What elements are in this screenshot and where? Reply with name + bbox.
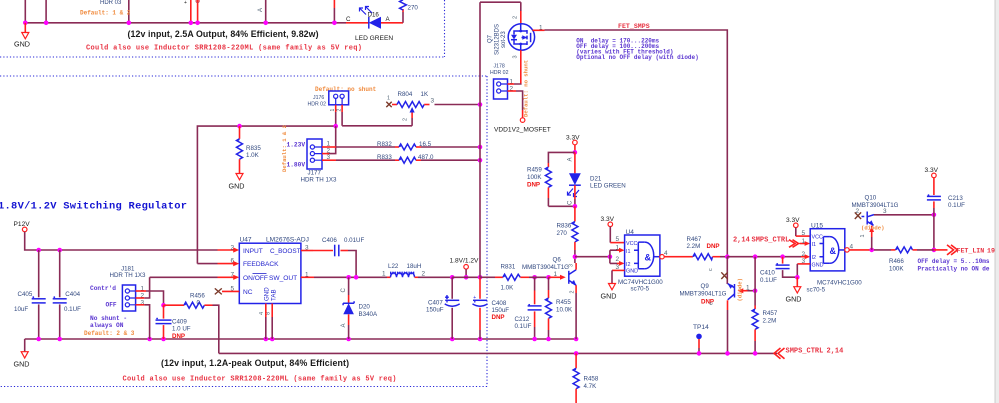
svg-text:I1: I1 bbox=[626, 249, 631, 255]
svg-text:C407: C407 bbox=[428, 299, 443, 306]
svg-text:Q9: Q9 bbox=[701, 283, 710, 290]
svg-text:P12V: P12V bbox=[14, 221, 31, 228]
svg-text:3.3V: 3.3V bbox=[786, 217, 800, 224]
svg-text:1: 1 bbox=[539, 25, 543, 32]
caption section 1 red bbox=[86, 45, 362, 53]
junction U4 input fork bbox=[608, 254, 613, 259]
svg-text:1: 1 bbox=[616, 245, 620, 252]
note Default: no shunt (rotated) bbox=[523, 60, 530, 117]
svg-text:2: 2 bbox=[802, 251, 806, 258]
svg-text:J176: J176 bbox=[313, 95, 324, 101]
svg-text:U15: U15 bbox=[811, 223, 823, 230]
note Contr'd / OFF / No shunt / Default bbox=[84, 285, 135, 337]
resistor R459 100K DNP (parallel loop) bbox=[527, 152, 575, 206]
capacitor C406 (boost) bbox=[301, 237, 365, 277]
svg-text:R466: R466 bbox=[889, 258, 904, 265]
capacitor C408 150uF DNP bbox=[473, 277, 510, 339]
svg-text:18uH: 18uH bbox=[407, 263, 422, 270]
svg-text:(12v input, 2.5A Output, 84% E: (12v input, 2.5A Output, 84% Efficient, … bbox=[128, 29, 319, 39]
ground (top left) bbox=[14, 23, 30, 49]
wire R467 node to U15 I2 bbox=[727, 254, 810, 259]
svg-text:(diode): (diode) bbox=[737, 278, 744, 302]
svg-text:1: 1 bbox=[382, 270, 386, 277]
resistor R466 100K bbox=[889, 247, 934, 273]
junction R804 to output vertical bbox=[478, 102, 483, 107]
svg-text:Q10: Q10 bbox=[865, 195, 877, 202]
capacitor C212 0.1UF bbox=[515, 275, 542, 341]
svg-text:16.5: 16.5 bbox=[419, 141, 432, 148]
svg-text:1: 1 bbox=[860, 235, 866, 238]
svg-text:INPUT: INPUT bbox=[243, 248, 263, 255]
wire stub x129 bbox=[128, 0, 130, 23]
capacitor C213 0.1UF bbox=[927, 194, 965, 250]
svg-text:C406: C406 bbox=[322, 237, 337, 244]
svg-text:2: 2 bbox=[231, 244, 235, 251]
svg-text:TAB: TAB bbox=[270, 289, 277, 301]
wire P12V to INPUT bbox=[25, 232, 240, 253]
svg-text:FEEDBACK: FEEDBACK bbox=[243, 261, 279, 268]
net label FET_SMPS bbox=[618, 23, 650, 30]
junction Q9 base to R457 bbox=[753, 288, 758, 293]
gate U15 MC74VHC1G00 bbox=[802, 223, 863, 294]
J177 pin2 wire up to J176 junction bbox=[322, 126, 336, 154]
svg-text:U4: U4 bbox=[626, 229, 635, 236]
wire FET_LIN row bbox=[849, 249, 891, 251]
svg-text:sc70-5: sc70-5 bbox=[631, 286, 650, 293]
gate U4 MC74VHC1G00 bbox=[616, 229, 669, 293]
svg-text:HDR 02: HDR 02 bbox=[308, 102, 327, 108]
svg-text:C405: C405 bbox=[18, 291, 33, 298]
svg-text:19: 19 bbox=[987, 248, 995, 255]
wire top rail bbox=[25, 22, 346, 24]
svg-text:C_BOOST: C_BOOST bbox=[270, 248, 301, 255]
svg-text:0.1UF: 0.1UF bbox=[760, 277, 777, 284]
svg-text:VDD1V2_MOSFET: VDD1V2_MOSFET bbox=[494, 127, 551, 134]
svg-text:1.0K: 1.0K bbox=[246, 152, 260, 159]
svg-text:3.3V: 3.3V bbox=[601, 216, 615, 223]
section border box 2 (1.8V/1.2V regulator) bbox=[0, 76, 487, 387]
diode lead (cut) x334 bbox=[333, 0, 335, 23]
svg-text:MMBT3904LT1G: MMBT3904LT1G bbox=[522, 264, 569, 271]
note 1.23V / 1.80V bbox=[281, 124, 305, 172]
wire Q7 drain link bbox=[480, 1, 521, 3]
svg-text:GND: GND bbox=[263, 287, 270, 301]
svg-text:FET_LIN: FET_LIN bbox=[957, 248, 985, 255]
svg-text:0: 0 bbox=[197, 300, 201, 307]
node P12V bbox=[14, 221, 31, 232]
junction output node x480 bbox=[478, 275, 483, 280]
svg-text:SMPS_CTRL: SMPS_CTRL bbox=[786, 348, 824, 356]
capacitor C410 0.1UF bbox=[760, 257, 797, 284]
svg-text:150uF: 150uF bbox=[426, 307, 444, 314]
resistor R467 2.2M DNP bbox=[679, 236, 727, 260]
svg-text:270: 270 bbox=[557, 230, 568, 237]
svg-text:Practically no ON de: Practically no ON de bbox=[918, 266, 990, 273]
svg-text:1K: 1K bbox=[421, 91, 429, 98]
svg-text:&: & bbox=[645, 253, 652, 263]
svg-text:100K: 100K bbox=[527, 174, 542, 181]
svg-text:LED GREEN: LED GREEN bbox=[590, 183, 626, 190]
ground (section 2 left) bbox=[14, 339, 30, 369]
svg-text:D21: D21 bbox=[590, 176, 602, 183]
resistor R831 1.0K bbox=[480, 263, 549, 291]
svg-text:HDR TH 1X3: HDR TH 1X3 bbox=[301, 177, 338, 184]
J177 pin3 wire / resistor R833 487.0 bbox=[322, 154, 482, 163]
svg-text:4: 4 bbox=[259, 312, 265, 315]
svg-text:L22: L22 bbox=[388, 263, 399, 270]
svg-text:Default: no shunt: Default: no shunt bbox=[523, 60, 530, 117]
svg-text:GND: GND bbox=[786, 295, 802, 304]
svg-text:1: 1 bbox=[746, 285, 750, 292]
svg-text:C404: C404 bbox=[65, 291, 80, 298]
svg-text:4.7K: 4.7K bbox=[584, 383, 598, 390]
svg-text:C409: C409 bbox=[172, 319, 187, 326]
svg-text:2: 2 bbox=[570, 291, 576, 294]
U47 NC pin5 stub with no-connect X bbox=[215, 288, 240, 294]
svg-text:Could also use Inductor SRR120: Could also use Inductor SRR1208-220ML (s… bbox=[86, 45, 362, 53]
svg-text:VCC: VCC bbox=[812, 235, 823, 241]
svg-text:DNP: DNP bbox=[172, 333, 185, 340]
junction 3.3V split bbox=[573, 150, 578, 155]
svg-text:+: + bbox=[184, 0, 187, 6]
wire FET_SMPS bbox=[545, 30, 728, 257]
header J181 HDR TH 1X3 bbox=[110, 266, 147, 311]
svg-text:LED GREEN: LED GREEN bbox=[355, 35, 393, 42]
inductor lead (cut) x266 with pin A bbox=[258, 0, 266, 23]
transistor Q10 MMBT3904LT1G (diode connected) bbox=[852, 195, 934, 250]
potentiometer R804 1K bbox=[386, 91, 480, 126]
svg-text:B340A: B340A bbox=[359, 311, 378, 318]
junction Q10 emitter bbox=[869, 248, 874, 253]
header J178 HDR 02 bbox=[490, 64, 514, 100]
svg-text:R455: R455 bbox=[556, 299, 571, 306]
svg-text:sot-23: sot-23 bbox=[501, 31, 507, 48]
svg-text:DNP: DNP bbox=[527, 181, 540, 188]
svg-text:D16: D16 bbox=[368, 12, 380, 19]
junction R459 bottom bbox=[573, 204, 578, 209]
section border box 1 (5V regulator, bottom-right corner) bbox=[0, 0, 445, 57]
svg-text:R457: R457 bbox=[763, 310, 778, 317]
svg-text:U47: U47 bbox=[240, 236, 252, 243]
transistor Q7 Si2312BDS (MOSFET) bbox=[488, 2, 545, 83]
capacitor C404 bbox=[53, 250, 81, 339]
svg-text:HDR TH 1X3: HDR TH 1X3 bbox=[110, 272, 147, 279]
svg-text:SW_OUT: SW_OUT bbox=[269, 275, 297, 282]
svg-text:TP14: TP14 bbox=[693, 324, 709, 331]
svg-text:MMBT3904LT1G: MMBT3904LT1G bbox=[680, 291, 727, 298]
node 3.3V (U15) bbox=[786, 217, 810, 236]
net label SMPS_CTRL (top) with off-page chevron bbox=[733, 236, 810, 247]
node VDD1V2_MOSFET bbox=[494, 118, 551, 134]
resistor R457 2.2M bbox=[752, 257, 778, 354]
U47 GND/TAB pins to rail bbox=[266, 304, 272, 340]
svg-text:3.3V: 3.3V bbox=[925, 167, 939, 174]
junction Q6 base node bbox=[546, 275, 551, 280]
transistor Q6 MMBT3904LT1G bbox=[522, 256, 576, 339]
svg-text:1.8V/1.2V: 1.8V/1.2V bbox=[450, 258, 480, 265]
header J177 HDR TH 1X3 bbox=[301, 139, 338, 184]
J181 pin2 wire up to ON/OFF bbox=[136, 277, 150, 298]
capacitor C405 bbox=[14, 250, 46, 339]
svg-text:C212: C212 bbox=[515, 316, 530, 323]
svg-text:HDR 03: HDR 03 bbox=[100, 0, 122, 6]
svg-text:I1: I1 bbox=[812, 242, 817, 248]
svg-text:Could also use Inductor SRR120: Could also use Inductor SRR1208-220ML (s… bbox=[123, 376, 397, 384]
svg-text:Q6: Q6 bbox=[553, 256, 562, 263]
svg-text:GND: GND bbox=[626, 269, 638, 275]
svg-text:VCC: VCC bbox=[626, 241, 637, 247]
resistor R456 0 ohm bbox=[164, 293, 219, 354]
junction R457 top bbox=[753, 254, 758, 259]
resistor R455 10.0K bbox=[546, 277, 574, 341]
wire SW_OUT row bbox=[301, 276, 387, 278]
caption section 2 red bbox=[123, 376, 397, 384]
capacitor C407 150uF bbox=[426, 275, 460, 339]
svg-text:R835: R835 bbox=[246, 145, 261, 152]
caption section 2 black bbox=[161, 358, 349, 368]
wire SMPS_CTRL rail (bottom) bbox=[219, 352, 777, 354]
svg-text:GND: GND bbox=[14, 40, 30, 49]
svg-text:I2: I2 bbox=[812, 255, 817, 261]
J181 pin3 wire down to GND rail bbox=[136, 305, 150, 339]
svg-text:R458: R458 bbox=[584, 375, 599, 382]
svg-text:R833: R833 bbox=[377, 154, 392, 161]
wire to FET_LIN off-page bbox=[934, 249, 948, 251]
svg-text:MC74VHC1G00: MC74VHC1G00 bbox=[817, 279, 862, 286]
svg-text:1.0K: 1.0K bbox=[501, 284, 515, 291]
svg-text:R836: R836 bbox=[557, 222, 572, 229]
svg-text:sc70-5: sc70-5 bbox=[807, 287, 826, 294]
node 3.3V (D21) bbox=[566, 134, 580, 152]
svg-text:J177: J177 bbox=[308, 170, 322, 177]
svg-text:2: 2 bbox=[513, 16, 519, 19]
svg-text:+: + bbox=[446, 295, 449, 301]
svg-text:+: + bbox=[473, 295, 476, 301]
resistor R835 1.0K bbox=[237, 126, 262, 173]
resistor R458 4.7K bbox=[573, 353, 599, 403]
wire ON/OFF row bbox=[150, 275, 240, 280]
header J176 HDR 02 bbox=[308, 91, 349, 112]
wire output net long vertical x480 bbox=[479, 2, 481, 277]
J176 pin2 wire to R804 wiper bbox=[342, 105, 412, 126]
svg-text:D20: D20 bbox=[359, 304, 371, 311]
junction C410 top bbox=[780, 254, 785, 259]
svg-text:e: e bbox=[709, 302, 715, 305]
J176 pin1 wire down bbox=[333, 105, 338, 129]
svg-text:OFF: OFF bbox=[106, 302, 117, 309]
svg-text:3: 3 bbox=[568, 264, 574, 267]
J177 pin1 wire / resistor R832 16.5 bbox=[322, 141, 482, 150]
svg-text:A: A bbox=[341, 323, 347, 327]
J178 pin2 wire to VDD1V2_MOSFET bbox=[508, 91, 523, 118]
svg-text:Default: 2 & 3: Default: 2 & 3 bbox=[84, 330, 135, 337]
svg-text:10.0K: 10.0K bbox=[556, 306, 573, 313]
svg-text:Optional no OFF delay (with di: Optional no OFF delay (with diode) bbox=[576, 54, 698, 61]
svg-text:3: 3 bbox=[431, 98, 435, 105]
note Default: no shunt bbox=[315, 86, 377, 93]
svg-text:2: 2 bbox=[422, 270, 426, 277]
svg-text:100K: 100K bbox=[889, 266, 904, 273]
svg-text:HDR 02: HDR 02 bbox=[490, 70, 509, 76]
transistor Q9 MMBT3904LT1G DNP (mirrored) bbox=[680, 257, 756, 354]
svg-text:GND: GND bbox=[601, 292, 617, 301]
junction FET_SMPS / Q9 collector bbox=[725, 254, 730, 259]
LED D21 GREEN bbox=[567, 152, 625, 206]
junction R456/C409 node bbox=[161, 303, 166, 308]
svg-text:1.8V/1.2V Switching Regulator: 1.8V/1.2V Switching Regulator bbox=[0, 201, 187, 213]
svg-text:C213: C213 bbox=[948, 195, 963, 202]
wire feedback node row y126 bbox=[197, 126, 335, 264]
svg-text:J178: J178 bbox=[494, 64, 505, 70]
svg-text:A: A bbox=[567, 157, 573, 161]
off-page connector FET_LIN bbox=[947, 245, 995, 255]
caption section 1 black bbox=[128, 29, 319, 39]
svg-text:1: 1 bbox=[387, 96, 390, 102]
svg-text:C: C bbox=[567, 200, 573, 205]
junction dots on top rail bbox=[23, 21, 337, 26]
svg-text:0.1UF: 0.1UF bbox=[515, 323, 532, 330]
svg-text:2: 2 bbox=[403, 118, 409, 121]
svg-text:FET_SMPS: FET_SMPS bbox=[618, 23, 650, 30]
svg-text:1.0 UF: 1.0 UF bbox=[172, 326, 191, 333]
svg-text:1: 1 bbox=[554, 271, 558, 278]
junction C406 drop bbox=[354, 275, 359, 280]
title bbox=[0, 201, 187, 213]
svg-text:Q7: Q7 bbox=[488, 34, 494, 43]
svg-text:GND: GND bbox=[812, 262, 824, 268]
svg-text:C: C bbox=[341, 288, 347, 293]
svg-text:487.0: 487.0 bbox=[418, 154, 434, 161]
junction C404 bbox=[57, 248, 62, 253]
note Default: 1 & 2 bbox=[80, 10, 131, 17]
svg-text:GND: GND bbox=[229, 182, 245, 191]
svg-text:0.1UF: 0.1UF bbox=[948, 202, 965, 209]
svg-text:2.2M: 2.2M bbox=[763, 318, 777, 325]
svg-text:C410: C410 bbox=[760, 269, 775, 276]
svg-text:Default: 1 & 2: Default: 1 & 2 bbox=[281, 124, 288, 172]
svg-text:1.80V: 1.80V bbox=[287, 161, 306, 168]
junction dots ground rail bbox=[36, 337, 578, 342]
svg-text:I2: I2 bbox=[626, 262, 631, 268]
diode D20 B340A (schottky) bbox=[341, 277, 378, 339]
node 3.3V (C213) bbox=[925, 167, 939, 195]
J178 pin1 wire to Q7 source bbox=[508, 83, 521, 86]
wire FEEDBACK from divider bbox=[197, 261, 239, 266]
junction Q10 collector / C213 bbox=[932, 213, 937, 218]
svg-text:&: & bbox=[830, 246, 837, 256]
header HDR 03 label (cut) bbox=[100, 0, 122, 6]
svg-text:No shunt -: No shunt - bbox=[90, 315, 127, 322]
svg-text:DNP: DNP bbox=[492, 314, 505, 321]
scrollbar strip right edge bbox=[995, 0, 999, 403]
svg-text:3: 3 bbox=[883, 208, 887, 215]
note ON/OFF delay (blue) bbox=[576, 38, 698, 62]
U15 ground bbox=[786, 264, 811, 304]
wire Q6 collector to U4 inputs bbox=[575, 256, 610, 258]
svg-text:2.2M: 2.2M bbox=[687, 243, 701, 250]
svg-text:5: 5 bbox=[616, 236, 620, 243]
svg-text:DNP: DNP bbox=[707, 243, 720, 250]
resistor R836 270 bbox=[557, 206, 578, 256]
svg-text:2,14: 2,14 bbox=[733, 236, 750, 244]
svg-text:150uF: 150uF bbox=[492, 307, 510, 314]
svg-text:270: 270 bbox=[408, 5, 419, 12]
capacitor C409 bbox=[156, 305, 191, 340]
svg-text:C408: C408 bbox=[492, 300, 507, 307]
svg-text:3: 3 bbox=[513, 55, 519, 58]
svg-text:LM2676S-ADJ: LM2676S-ADJ bbox=[266, 236, 309, 243]
svg-text:1: 1 bbox=[802, 238, 806, 245]
junction dots bottom rail bbox=[574, 351, 758, 356]
resistor 270 (cut at top) bbox=[400, 0, 419, 23]
junction R835 top bbox=[237, 124, 242, 129]
inductor L22 18uH bbox=[382, 263, 452, 277]
svg-text:R456: R456 bbox=[190, 293, 205, 300]
wire stub x25 bbox=[24, 0, 26, 23]
svg-text:R804: R804 bbox=[398, 91, 413, 98]
svg-text:SMPS_CTRL: SMPS_CTRL bbox=[752, 236, 790, 244]
junction D20 bbox=[346, 275, 351, 280]
svg-text:always ON: always ON bbox=[90, 322, 124, 329]
svg-text:(12v input, 1.2A-peak Output,: (12v input, 1.2A-peak Output, 84% Effici… bbox=[161, 358, 349, 368]
svg-text:R831: R831 bbox=[501, 263, 516, 270]
svg-text:c: c bbox=[708, 268, 714, 271]
wire ground rail bbox=[25, 338, 576, 340]
node 1.8V/1.2V bbox=[450, 258, 481, 280]
svg-text:Default: 1 & 2: Default: 1 & 2 bbox=[80, 10, 131, 17]
svg-text:7: 7 bbox=[231, 271, 235, 278]
svg-text:2,14: 2,14 bbox=[827, 348, 844, 356]
svg-text:OFF delay = 5...10ms: OFF delay = 5...10ms bbox=[918, 258, 990, 265]
ground (R835) bbox=[229, 174, 245, 191]
svg-text:5: 5 bbox=[802, 230, 806, 237]
svg-text:C: C bbox=[346, 16, 351, 23]
off-page connector SMPS_CTRL (bottom) bbox=[774, 348, 843, 359]
test point TP14 bbox=[693, 324, 709, 353]
svg-text:10uF: 10uF bbox=[14, 306, 28, 313]
LED D16 bbox=[346, 7, 403, 43]
svg-text:A: A bbox=[258, 8, 264, 12]
svg-text:Contr'd: Contr'd bbox=[90, 285, 116, 292]
junction C213 to FET_LIN bbox=[932, 248, 937, 253]
junction C405 bbox=[36, 248, 41, 253]
svg-text:ON/OFF: ON/OFF bbox=[243, 275, 268, 282]
svg-text:0.1UF: 0.1UF bbox=[64, 306, 81, 313]
svg-text:R459: R459 bbox=[527, 166, 542, 173]
svg-text:1.23V: 1.23V bbox=[287, 141, 306, 148]
svg-text:0.01UF: 0.01UF bbox=[344, 237, 365, 244]
svg-text:GND: GND bbox=[14, 360, 30, 369]
U4 input fork wires bbox=[610, 248, 625, 266]
junction Q6 collector node bbox=[573, 254, 578, 259]
U4 ground bbox=[601, 270, 625, 300]
svg-text:R467: R467 bbox=[687, 236, 702, 243]
note OFF delay (blue, right) bbox=[918, 258, 990, 273]
svg-text:2: 2 bbox=[616, 256, 620, 263]
node 3.3V (U4) bbox=[601, 216, 625, 243]
svg-text:R832: R832 bbox=[377, 141, 392, 148]
regulator U47 LM2676S-ADJ bbox=[231, 236, 310, 315]
svg-text:(diode): (diode) bbox=[861, 225, 885, 232]
wire stub x46 bbox=[45, 0, 47, 23]
wire U4 output bbox=[664, 256, 679, 258]
capacitor lead (cut) x190 bbox=[184, 0, 191, 23]
svg-text:NC: NC bbox=[243, 289, 253, 296]
J181 pin1 wire to R456/C409 node bbox=[136, 291, 164, 305]
svg-text:Si2312BDS: Si2312BDS bbox=[495, 24, 501, 55]
capacitor lead (cut) x198 bbox=[196, 0, 199, 23]
